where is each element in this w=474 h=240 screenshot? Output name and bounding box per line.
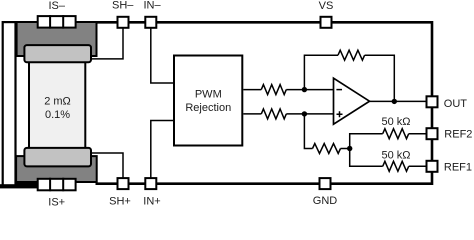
svg-text:50 kΩ: 50 kΩ xyxy=(381,116,410,128)
svg-text:REF1: REF1 xyxy=(444,162,472,174)
pin SH- xyxy=(118,17,129,28)
svg-text:REF2: REF2 xyxy=(444,129,472,141)
node non-inverting input xyxy=(302,111,307,116)
node reference divider xyxy=(347,146,352,151)
op-amp A1 xyxy=(334,78,370,124)
resistor input bottom xyxy=(261,109,286,119)
svg-text:PWM: PWM xyxy=(195,88,222,100)
pin IN+ xyxy=(145,178,156,189)
svg-text:SH+: SH+ xyxy=(109,196,131,207)
svg-text:GND: GND xyxy=(313,195,338,206)
device outline xyxy=(96,22,433,183)
resistor 50k REF1 xyxy=(383,161,409,171)
resistor reference mid xyxy=(313,144,341,154)
svg-text:2 mΩ: 2 mΩ xyxy=(44,95,71,107)
shunt bottom end cap xyxy=(24,148,91,167)
op-amp plus sign xyxy=(337,111,343,117)
resistor input top xyxy=(261,85,286,95)
pin VS xyxy=(321,17,332,28)
pin OUT xyxy=(427,96,438,107)
svg-text:SH–: SH– xyxy=(112,0,134,12)
IS- pads xyxy=(38,16,76,28)
node output xyxy=(392,99,397,104)
svg-text:Rejection: Rejection xyxy=(185,102,231,114)
pin SH+ xyxy=(118,178,129,189)
shunt top end cap xyxy=(24,45,91,62)
wire SH- pin to shunt top cap xyxy=(90,29,123,59)
shunt bottom terminal bar xyxy=(16,156,97,182)
svg-text:0.1%: 0.1% xyxy=(45,109,70,121)
wire non-inverting node to divider resistor xyxy=(304,114,349,149)
IS+ pads xyxy=(38,179,76,191)
pin IN- xyxy=(145,17,156,28)
wire PWM top output to inverting node xyxy=(243,89,333,91)
shunt resistor body (2 mOhm) xyxy=(29,61,85,149)
wire feedback loop xyxy=(304,55,394,101)
wire SH+ pin to shunt bottom cap xyxy=(90,153,123,179)
wire divider node to REF2 resistor xyxy=(350,134,426,149)
wire PWM bottom output to non-inverting node xyxy=(243,113,333,115)
pin GND xyxy=(320,178,331,189)
wire IN- pin to PWM block xyxy=(151,29,173,84)
shunt top terminal bar xyxy=(17,22,97,56)
PWM rejection block U1 xyxy=(174,56,242,146)
node inverting input xyxy=(302,87,307,92)
svg-text:IS+: IS+ xyxy=(48,196,65,206)
svg-text:OUT: OUT xyxy=(444,98,468,110)
wire op-amp output to OUT pin xyxy=(370,100,426,102)
svg-text:IS–: IS– xyxy=(48,0,65,12)
wire IN+ pin to PWM block xyxy=(151,121,173,180)
resistor feedback xyxy=(338,50,365,60)
busbar foot bar xyxy=(0,184,37,188)
pin REF1 xyxy=(427,161,438,172)
resistor 50k REF2 xyxy=(383,129,409,139)
svg-text:IN–: IN– xyxy=(143,0,161,12)
op-amp minus sign xyxy=(336,89,342,91)
svg-text:50 kΩ: 50 kΩ xyxy=(381,150,410,162)
busbar (current path IS- to IS+) xyxy=(3,22,16,187)
svg-text:VS: VS xyxy=(319,0,334,12)
wire divider node to REF1 resistor xyxy=(350,149,426,167)
svg-text:IN+: IN+ xyxy=(143,196,160,207)
pin REF2 xyxy=(427,128,438,139)
